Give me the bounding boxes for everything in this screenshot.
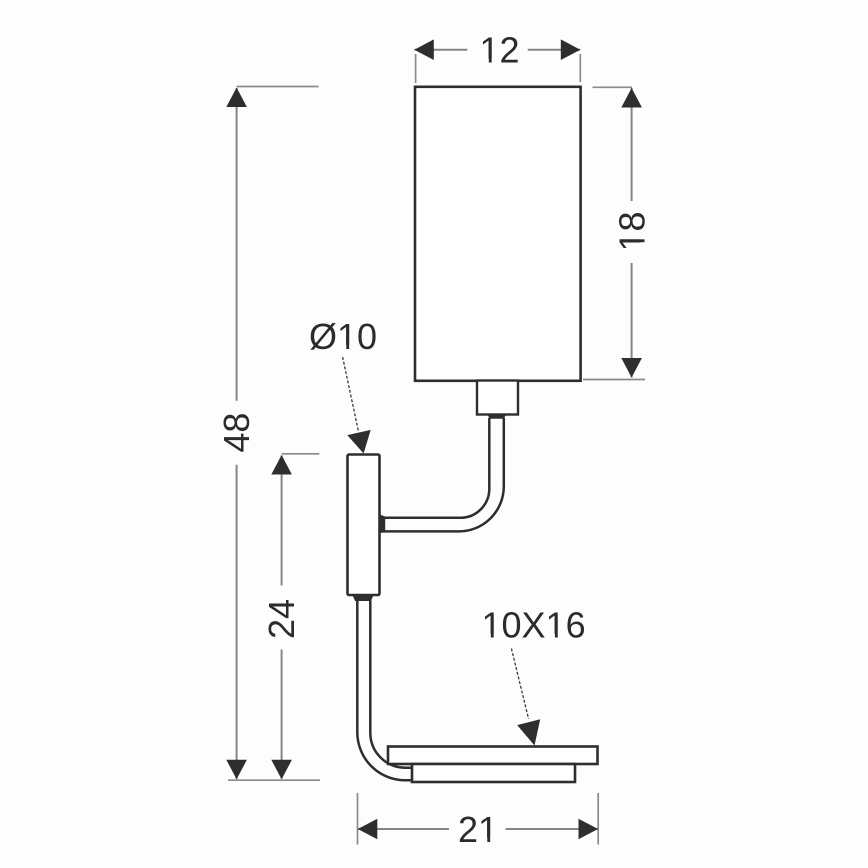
- dim 21 digit-1 foot patch: [479, 838, 487, 844]
- lower tube outer line: [357, 599, 413, 780]
- dim 48 reference line top: [237, 86, 319, 88]
- dim 12 arrow right: [561, 39, 581, 60]
- dim 12 arrow left: [414, 39, 434, 60]
- dim 48 reference line bottom: [228, 779, 320, 781]
- base plate lower slab: [412, 764, 575, 782]
- label 10X16 digit-1 foot patches: [483, 634, 491, 640]
- dim 21 line right segment: [506, 828, 599, 830]
- dim 18 digit-1 foot patch: [641, 232, 647, 250]
- dim 48 arrow up: [226, 88, 247, 108]
- socket dark cap: [488, 414, 507, 419]
- label diameter 10 arrowhead: [347, 430, 370, 454]
- svg-text:48: 48: [216, 413, 257, 453]
- lamp shade rectangle: [415, 87, 581, 381]
- dim 18 extension line bottom: [583, 379, 645, 381]
- dim 12 extension line right: [579, 54, 581, 82]
- upper tube outer line: [380, 418, 504, 531]
- svg-text:24: 24: [261, 599, 302, 639]
- base plate upper slab: [388, 747, 598, 765]
- lower tube inner line: [370, 599, 413, 768]
- label diameter 10 digit-1 foot patch: [338, 345, 346, 351]
- wall bracket: [348, 455, 380, 596]
- dim 12 line left segment: [414, 49, 467, 51]
- dim 48 line upper segment: [236, 88, 238, 401]
- dim 21 arrow left: [358, 819, 378, 840]
- dim 24 arrow down: [271, 760, 292, 780]
- dim 21 extension line left: [357, 793, 359, 845]
- dim 21 arrow right: [579, 819, 599, 840]
- dim 12 digit-1 foot patch: [481, 59, 489, 65]
- dim 24 line lower segment: [281, 650, 283, 779]
- dim 24 reference line top: [282, 453, 320, 455]
- dim 18 line lower segment: [631, 263, 633, 378]
- dim 24 line upper segment: [281, 456, 283, 586]
- dim 21 extension line right: [597, 793, 599, 845]
- dim 18 arrow up: [621, 88, 642, 108]
- bracket bottom cap: [353, 595, 374, 601]
- dim 18 extension line top: [593, 86, 633, 88]
- dim 12 extension line left: [415, 54, 417, 83]
- label 10X16 arrowhead: [517, 719, 540, 745]
- dim 18 line upper segment: [631, 88, 633, 201]
- dim 48 arrow down: [226, 760, 247, 780]
- label 10X16 leader line: [511, 649, 528, 720]
- dim 24 arrow up: [271, 455, 292, 475]
- dim 48 line lower segment: [236, 465, 238, 779]
- dim 18 arrow down: [621, 358, 642, 378]
- tube joint connector at bracket: [379, 514, 385, 533]
- upper tube inner line: [380, 418, 489, 518]
- dim 12 line right segment: [528, 49, 581, 51]
- dim 21 line left segment: [358, 828, 449, 830]
- label diameter 10 leader line: [343, 357, 359, 432]
- socket box below shade: [477, 381, 518, 415]
